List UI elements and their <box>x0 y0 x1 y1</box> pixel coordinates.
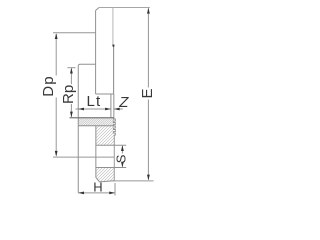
svg-text:E: E <box>139 88 156 98</box>
svg-text:Rp: Rp <box>60 85 77 104</box>
svg-text:Z: Z <box>118 94 129 111</box>
svg-text:Lt: Lt <box>87 93 102 110</box>
svg-text:Dp: Dp <box>40 75 57 97</box>
svg-text:H: H <box>93 180 102 195</box>
svg-text:S: S <box>113 154 128 163</box>
